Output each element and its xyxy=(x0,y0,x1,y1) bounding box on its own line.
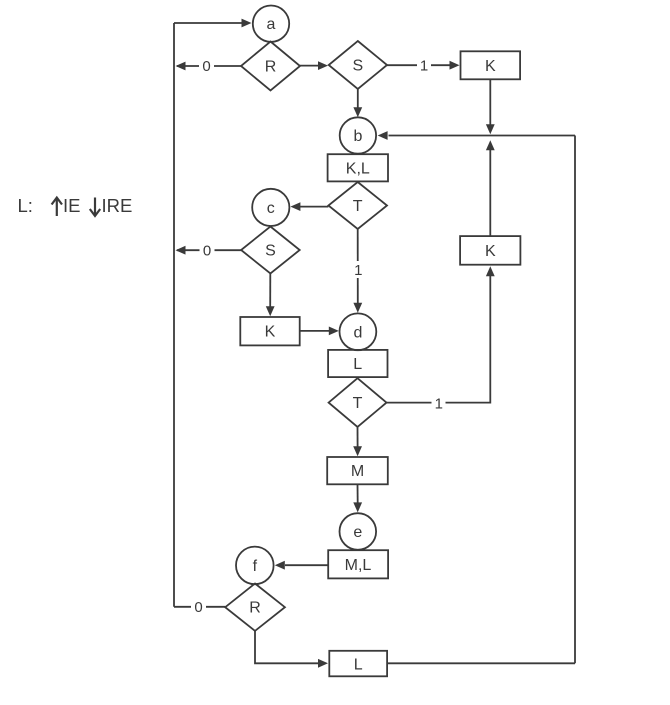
state circle a xyxy=(253,6,289,42)
svg-text:L: L xyxy=(354,656,363,673)
svg-text:T: T xyxy=(353,198,363,215)
wire feedback line into b xyxy=(378,131,575,140)
wire K3 up to junction xyxy=(486,140,495,236)
svg-text:T: T xyxy=(353,395,363,412)
wire T1 zero-branch to c xyxy=(290,202,328,211)
svg-text:e: e xyxy=(353,524,362,541)
wire L2 to right feedback wall xyxy=(387,662,575,664)
wire M,L to f xyxy=(275,561,328,570)
svg-text:1: 1 xyxy=(420,58,428,75)
svg-text:a: a xyxy=(267,16,276,33)
output box K,L xyxy=(328,154,388,181)
note up arrow glyph xyxy=(52,198,62,216)
state circle c xyxy=(252,189,289,226)
svg-text:K: K xyxy=(265,324,276,341)
wire T1 one-branch down to d xyxy=(353,229,362,313)
label 1 on S1 branch xyxy=(417,57,431,75)
wire M down to e xyxy=(353,484,362,512)
state circle d xyxy=(340,313,377,350)
svg-text:1: 1 xyxy=(435,396,443,413)
state circle b xyxy=(340,117,376,153)
svg-text:M,L: M,L xyxy=(345,557,372,574)
svg-text:IE: IE xyxy=(63,195,80,216)
svg-text:S: S xyxy=(352,58,363,75)
wire S2 down to K2 xyxy=(266,274,275,317)
wire T2 down to M xyxy=(353,427,362,456)
svg-text:L: L xyxy=(353,356,362,373)
output box M,L xyxy=(328,550,388,578)
svg-text:K,L: K,L xyxy=(346,160,370,177)
svg-text:K: K xyxy=(485,58,496,75)
label 0 on S2 branch xyxy=(200,242,215,260)
wire S1 down to b xyxy=(353,89,362,117)
wire R2 zero-branch to left wall xyxy=(174,606,225,608)
svg-text:0: 0 xyxy=(202,58,210,75)
wire K1 down to junction xyxy=(486,79,495,134)
label 0 on R2 branch xyxy=(191,599,206,617)
output box K3 right middle xyxy=(460,236,520,265)
decision diamond S2 xyxy=(241,227,300,274)
svg-text:b: b xyxy=(353,128,362,145)
svg-text:0: 0 xyxy=(203,243,211,260)
wire R1 zero-branch to left wall xyxy=(176,62,242,71)
svg-text:IRE: IRE xyxy=(102,195,133,216)
decision diamond R1 xyxy=(241,42,300,91)
wire right feedback wall vertical xyxy=(574,136,576,664)
label 1 on T1 branch xyxy=(351,261,365,279)
wire K2 to d xyxy=(300,327,339,336)
svg-text:1: 1 xyxy=(354,262,362,279)
svg-text:f: f xyxy=(253,558,258,575)
label 1 on T2 branch xyxy=(432,395,446,413)
note L: up IE down IRE xyxy=(18,195,133,216)
svg-text:M: M xyxy=(351,463,364,480)
wire T2 one-branch to K3 xyxy=(387,266,495,402)
output box M xyxy=(327,457,388,484)
wire R2 one-branch down and right to L2 xyxy=(255,631,328,668)
decision diamond T2 xyxy=(329,378,387,427)
wire top entry into a xyxy=(174,19,252,28)
output box K2 xyxy=(240,317,299,345)
svg-text:S: S xyxy=(265,243,276,260)
svg-text:c: c xyxy=(267,200,275,217)
svg-text:d: d xyxy=(353,324,362,341)
output box K1 top right xyxy=(461,51,521,79)
svg-text:0: 0 xyxy=(194,599,202,616)
wire S1 one-branch to K1 xyxy=(387,61,460,70)
decision diamond S1 xyxy=(329,41,387,89)
state circle f xyxy=(236,547,274,585)
svg-text:K: K xyxy=(485,243,496,260)
wire left return wall vertical xyxy=(173,23,175,607)
state circle e xyxy=(340,513,377,550)
svg-text:R: R xyxy=(265,59,277,76)
decision diamond R2 xyxy=(225,584,285,631)
output box L1 xyxy=(328,350,387,377)
label 0 on R1 branch xyxy=(199,58,214,76)
note down arrow glyph xyxy=(90,198,100,216)
svg-text:R: R xyxy=(249,600,261,617)
wire R1 to S1 xyxy=(300,61,328,70)
wire S2 zero-branch to left wall xyxy=(176,246,242,255)
output box L2 bottom xyxy=(329,651,387,677)
decision diamond T1 xyxy=(328,182,387,229)
svg-text:L:: L: xyxy=(18,195,33,216)
